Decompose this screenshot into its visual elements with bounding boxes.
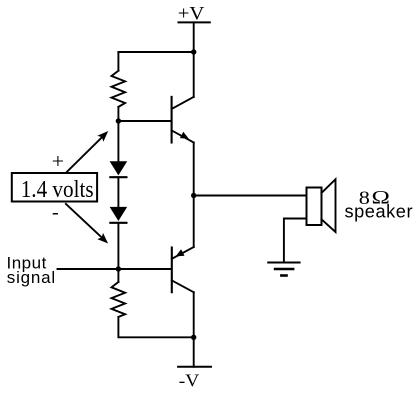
+V supply symbol (178, 4, 210, 24)
arrow: 1.4V label to upper diode node (67, 131, 109, 172)
svg-text:+: + (52, 150, 64, 173)
wire: top rail down to R1 (117, 52, 119, 71)
wire: Q1 emitter down to output node (193, 143, 195, 196)
svg-text:signal: signal (7, 268, 56, 287)
wire: output node down to Q2 emitter (193, 196, 195, 248)
wire: speaker lower lead (284, 219, 307, 263)
svg-text:-V: -V (179, 371, 200, 391)
transistor Q1 (172, 97, 194, 143)
wire: input signal lead (58, 268, 172, 270)
arrow: 1.4V label to lower diode node (66, 204, 108, 244)
wire: base node down to D1 (117, 121, 119, 161)
node: output junction (191, 193, 196, 198)
label: Input signal (7, 253, 57, 287)
node: bottom junction (191, 335, 196, 340)
ground (268, 263, 299, 276)
resistor R1 (112, 71, 126, 107)
wire: base node to Q1 base (118, 120, 170, 122)
svg-text:‑: ‑ (52, 201, 59, 223)
svg-text:1.4 volts: 1.4 volts (21, 176, 94, 203)
label: 1.4 volts box (12, 173, 97, 203)
wire: +V to top rail (193, 22, 195, 52)
wire: Q2 collector down to bottom junction (193, 292, 195, 337)
svg-text:+V: +V (178, 4, 205, 24)
wire: output node to speaker (194, 195, 307, 197)
wire: bottom junction to -V bar (193, 337, 195, 367)
transistor Q2 (172, 247, 194, 292)
resistor R2 (112, 282, 126, 317)
wire: D2 down to input junction (117, 223, 119, 269)
wire: input junction down to R2 (117, 269, 119, 282)
node: top rail junction (191, 49, 196, 54)
wire: Q1 collector up to top rail (193, 52, 195, 97)
label: 8 ohm speaker (345, 186, 414, 222)
wire: top rail horizontal (118, 51, 193, 53)
-V supply symbol (178, 367, 211, 392)
speaker SP1 (307, 179, 336, 232)
diode D2 (110, 207, 128, 223)
diode D1 (110, 161, 128, 177)
svg-text:speaker: speaker (345, 202, 414, 222)
wire: D1 to D2 (117, 177, 119, 207)
wire: R2 down and right to bottom junction (118, 317, 193, 337)
node: input junction (116, 266, 121, 271)
node: Q1 base junction (116, 118, 121, 123)
wire: R1 to base node (117, 107, 119, 121)
